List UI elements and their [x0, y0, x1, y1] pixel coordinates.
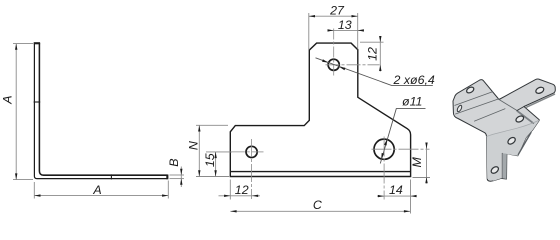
svg-text:A: A [1, 95, 15, 104]
svg-text:12: 12 [365, 47, 379, 61]
dim 14 (bottom right) [377, 195, 417, 197]
hole left arm [466, 86, 475, 94]
svg-text:M: M [410, 156, 424, 167]
bend line (inner bottom line) [230, 171, 410, 173]
svg-text:12: 12 [235, 183, 249, 197]
svg-text:14: 14 [389, 183, 403, 197]
outer contour of L-profile [34, 43, 167, 179]
dim 13 [328, 29, 362, 31]
break tick vertical leg [34, 101, 41, 103]
hole flange [456, 105, 462, 113]
dim C [230, 180, 410, 214]
inner contour of L-profile [39, 43, 167, 175]
diagonal cut lower edge [518, 133, 531, 155]
right arm front edge [517, 107, 524, 111]
leader d11 [380, 109, 425, 164]
right end cap [166, 175, 168, 180]
diagonal cut thickness band [517, 111, 533, 123]
part outline [230, 43, 410, 176]
dim 12 (bottom left) [219, 180, 261, 200]
leader 2x d6,4 [316, 58, 433, 86]
svg-text:A: A [92, 183, 101, 197]
under right-arm thickness edge [527, 94, 555, 107]
dim 12 (top right, vertical) [360, 36, 384, 71]
tab thickness band [502, 153, 507, 179]
valley to notch edge [499, 100, 517, 111]
hole centre [515, 115, 525, 123]
svg-text:N: N [186, 141, 200, 150]
hole front lower [490, 165, 500, 174]
dim M [413, 143, 431, 184]
svg-text:27: 27 [329, 4, 345, 18]
dim 15 [206, 152, 232, 177]
left face bend line L1 [455, 92, 493, 106]
dim 27 [309, 13, 358, 50]
svg-text:C: C [313, 198, 323, 212]
hole front upper [507, 136, 517, 145]
top end cap [34, 42, 40, 44]
left face lower line L2 [456, 99, 500, 114]
dim N [196, 125, 229, 176]
dimension A (vertical) [13, 44, 33, 180]
break tick horizontal leg [110, 174, 112, 179]
front face shading [487, 120, 540, 181]
dimension B (thickness) [170, 167, 185, 188]
bracket body silhouette [453, 79, 555, 181]
svg-text:15: 15 [203, 153, 217, 167]
svg-text:ø11: ø11 [402, 95, 422, 109]
tab right edge [501, 153, 503, 178]
hole right arm [535, 86, 545, 94]
dimension A (horizontal) [34, 181, 168, 199]
centerlines [231, 29, 430, 200]
bend tangent line [487, 120, 540, 137]
left face bottom edge L3 [474, 109, 505, 121]
svg-text:2 xø6,4: 2 xø6,4 [393, 73, 435, 87]
base small hole 6,4 [246, 146, 257, 157]
svg-text:13: 13 [338, 18, 352, 32]
svg-text:B: B [167, 158, 181, 166]
top small hole 6,4 [328, 59, 339, 70]
big hole 11 [374, 139, 394, 159]
